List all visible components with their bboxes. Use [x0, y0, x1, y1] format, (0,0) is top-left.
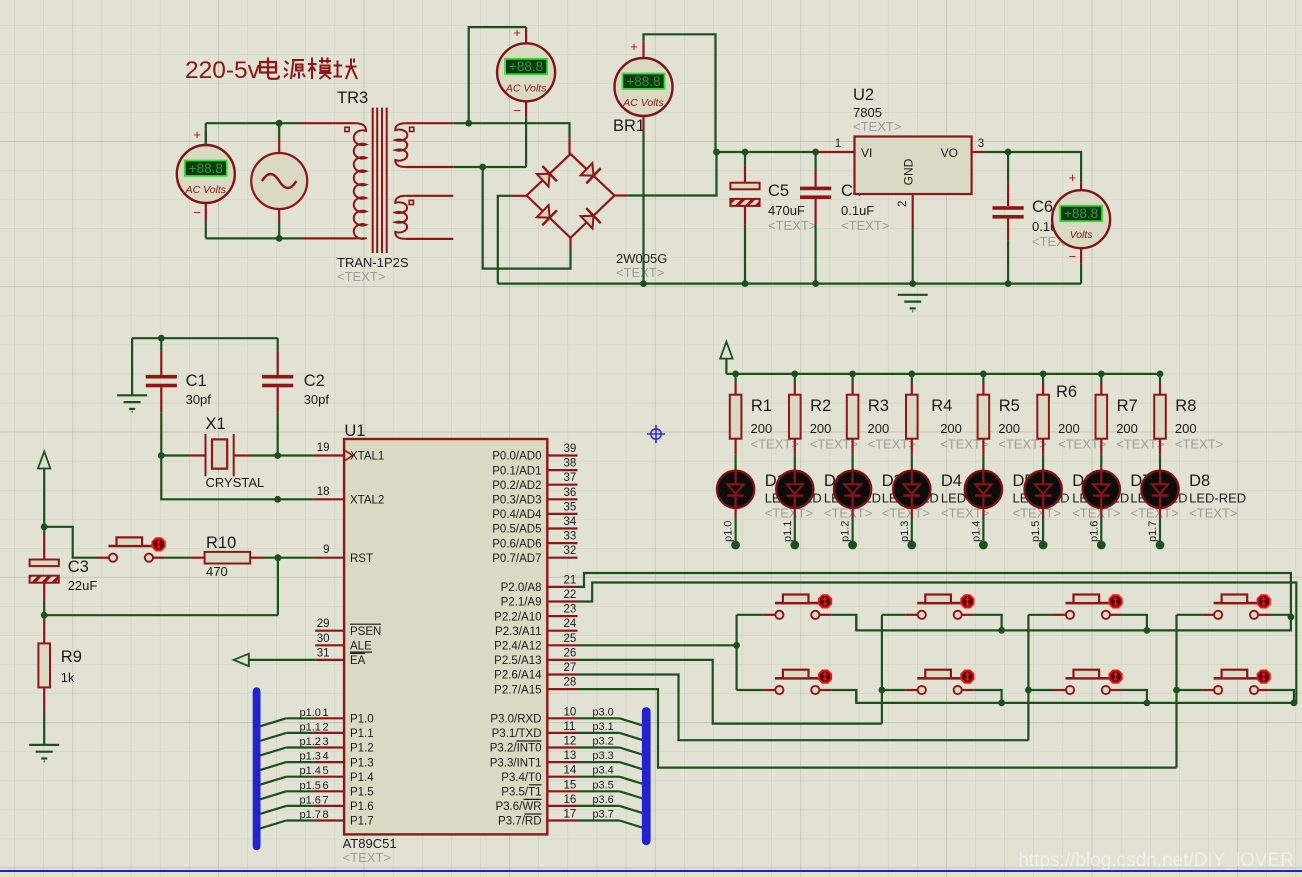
- P3 wires to bus: [578, 717, 620, 719]
- bridge BR1 diode D-TL: [537, 166, 557, 186]
- bus bar left (P1): [253, 687, 261, 850]
- wire P2.7 column4: [578, 689, 1177, 768]
- svg-text:R1: R1: [751, 397, 772, 415]
- svg-text:P0.0/AD0: P0.0/AD0: [492, 451, 541, 463]
- wire column4: [1175, 615, 1177, 768]
- svg-text:P0.3/AD3: P0.3/AD3: [492, 495, 541, 507]
- node junction VO: [1005, 149, 1012, 156]
- svg-text:P1.0: P1.0: [350, 714, 374, 726]
- svg-text:p1.5: p1.5: [300, 780, 321, 792]
- bus bar right (P3): [642, 707, 651, 845]
- svg-text:28: 28: [564, 677, 577, 689]
- svg-text:9: 9: [323, 544, 329, 556]
- svg-text:p1.6: p1.6: [1088, 521, 1100, 542]
- wire C3 top stub: [43, 527, 45, 533]
- svg-text:33: 33: [564, 531, 577, 543]
- wire row1 col2 left link: [882, 614, 906, 616]
- terminal dot D1: [731, 541, 740, 550]
- svg-text:11: 11: [564, 721, 576, 733]
- wire column1: [735, 615, 737, 690]
- resistor R10: [205, 552, 251, 564]
- svg-text:+88.8: +88.8: [1064, 206, 1098, 221]
- svg-text:4: 4: [323, 751, 329, 763]
- svg-text:p1.2: p1.2: [840, 521, 852, 542]
- svg-text:R3: R3: [868, 397, 889, 415]
- node junction regulator input: [713, 149, 720, 156]
- svg-text:+88.8: +88.8: [626, 74, 660, 89]
- svg-text:P3.1/TXD: P3.1/TXD: [492, 728, 542, 740]
- svg-text:P3.3/INT1: P3.3/INT1: [490, 757, 542, 769]
- svg-text:22uF: 22uF: [68, 578, 98, 593]
- svg-text:35: 35: [564, 501, 577, 513]
- wire D1 bottom: [734, 508, 736, 517]
- svg-text:26: 26: [564, 647, 577, 659]
- svg-text:P1.4: P1.4: [350, 772, 374, 784]
- svg-text:p1.4: p1.4: [300, 765, 321, 777]
- bridge rectifier BR1 outline: [527, 154, 615, 238]
- wire button to R10: [165, 557, 191, 559]
- svg-text:200: 200: [810, 421, 832, 436]
- wire C6 top stub: [1007, 152, 1009, 182]
- svg-text:36: 36: [564, 487, 577, 499]
- svg-text:RST: RST: [350, 553, 373, 565]
- wire C2 top stub: [277, 338, 279, 351]
- wire XTAL1 net: [161, 454, 190, 456]
- wire bridge DC- net: [511, 195, 527, 197]
- svg-text:P1.2: P1.2: [350, 743, 374, 755]
- svg-text:P3.0/RXD: P3.0/RXD: [490, 714, 541, 726]
- node junction AC source top: [276, 120, 283, 127]
- U1 P3 pins: [547, 717, 577, 719]
- LED D2: [776, 471, 813, 508]
- wire voltmeter top to top rail: [205, 123, 207, 145]
- microcontroller U1 body: [344, 439, 547, 834]
- wire bridge AC2 loop: [483, 167, 571, 269]
- svg-text:EA: EA: [350, 655, 366, 667]
- svg-text:1k: 1k: [61, 670, 75, 685]
- svg-text:12: 12: [564, 736, 577, 748]
- wire top rail to transformer: [206, 122, 302, 124]
- resistor R3: [847, 395, 859, 439]
- svg-text:200: 200: [751, 421, 773, 436]
- wire R4 to D4: [911, 439, 913, 455]
- wire voltmeter4 bottom: [1080, 248, 1082, 264]
- bridge BR1 diode D-BR: [581, 208, 601, 228]
- svg-text:2: 2: [323, 721, 329, 733]
- svg-text:15: 15: [564, 779, 577, 791]
- wire power to C3: [43, 469, 45, 527]
- node junction voltmeter3 ground: [640, 280, 647, 287]
- node junction C6 ground: [1005, 280, 1012, 287]
- svg-text:<TEXT>: <TEXT>: [343, 850, 391, 865]
- wire P2.6 column3: [578, 675, 1029, 741]
- svg-text:p1.7: p1.7: [1147, 521, 1159, 542]
- svg-text:P1.6: P1.6: [350, 801, 374, 813]
- transformer TR3 core: [373, 108, 387, 254]
- svg-text:U1: U1: [344, 422, 365, 440]
- wire to reset button: [44, 527, 98, 558]
- resistor R6: [1037, 395, 1049, 439]
- svg-text:p1.4: p1.4: [970, 521, 982, 542]
- node junction row2 link 3: [1144, 700, 1151, 707]
- svg-text:<TEXT>: <TEXT>: [841, 218, 889, 233]
- wire R6 top stub: [1042, 374, 1044, 383]
- ground symbol (R9): [29, 745, 59, 762]
- svg-text:30pf: 30pf: [304, 392, 330, 407]
- wire R3 top stub: [851, 374, 853, 383]
- wire row2 col4 right link: [1270, 690, 1294, 703]
- wire C2 bottom stub: [277, 387, 279, 412]
- wire voltmeter2 bottom stub: [525, 102, 527, 118]
- svg-text:200: 200: [868, 421, 890, 436]
- wire R10 to RST: [250, 557, 264, 559]
- wire C3 bottom stub: [43, 583, 45, 601]
- wire D2 bottom: [794, 508, 796, 517]
- svg-text:P2.5/A13: P2.5/A13: [494, 655, 541, 667]
- capacitor C5 (electrolytic): [730, 183, 759, 206]
- svg-text:18: 18: [317, 486, 330, 498]
- svg-text:AT89C51: AT89C51: [343, 836, 397, 851]
- svg-text:0.1uF: 0.1uF: [841, 203, 874, 218]
- ground symbol (crystal): [117, 395, 147, 412]
- svg-text:AC Volts: AC Volts: [185, 184, 227, 196]
- svg-text:3: 3: [978, 138, 984, 150]
- wire R4 top stub: [911, 374, 913, 383]
- svg-text:D8: D8: [1189, 472, 1210, 490]
- wire row1 col2 right link: [974, 615, 1002, 631]
- svg-text:AC Volts: AC Volts: [622, 97, 664, 109]
- svg-text:C3: C3: [68, 558, 89, 576]
- svg-text:P0.1/AD1: P0.1/AD1: [492, 465, 541, 477]
- svg-text:AC Volts: AC Volts: [505, 82, 547, 94]
- U2 pin3 VO: [972, 151, 986, 153]
- resistor R7: [1096, 395, 1108, 439]
- svg-text:p1.1: p1.1: [782, 521, 794, 542]
- wire P2.4 column1: [578, 644, 737, 646]
- svg-text:C5: C5: [768, 182, 789, 200]
- svg-text:1: 1: [323, 707, 329, 719]
- U1 XTAL1 input arrow: [345, 451, 352, 461]
- node junction row1 link 3: [1144, 627, 1151, 634]
- wire row1 col3 left link: [1028, 614, 1054, 616]
- bridge BR1 diode D-BL: [537, 205, 557, 225]
- wire row2 col1 right link: [831, 690, 856, 703]
- capacitor C1 (ceramic): [146, 375, 177, 387]
- svg-text:38: 38: [564, 458, 577, 470]
- pushbutton matrix row1 col1: [763, 595, 831, 619]
- svg-text:220-5v: 220-5v: [185, 57, 261, 84]
- voltmeter AC Volts (input): [177, 145, 235, 203]
- svg-text:p1.3: p1.3: [300, 751, 321, 763]
- wire AC source bottom stub: [278, 209, 280, 224]
- svg-text:7805: 7805: [853, 105, 882, 120]
- svg-text:VI: VI: [861, 146, 872, 160]
- bridge BR1 diode D-TR: [581, 163, 601, 183]
- wire column2: [881, 615, 883, 724]
- node junction pin22 row2: [1291, 700, 1298, 707]
- svg-text:1: 1: [835, 138, 841, 150]
- svg-text:P3.2/INT0: P3.2/INT0: [490, 743, 542, 755]
- transformer TR3 secondary B polarity dot: [409, 200, 413, 204]
- node junction row1 link 2: [998, 627, 1005, 634]
- node junction secondary A top: [465, 120, 472, 127]
- wire row2 col3 left link: [1028, 689, 1054, 691]
- terminal dot D7: [1097, 541, 1106, 550]
- terminal dot D8: [1156, 541, 1165, 550]
- wire V+ rail to U2: [717, 151, 819, 153]
- svg-text:C6: C6: [1032, 198, 1053, 216]
- svg-text:R6: R6: [1056, 383, 1077, 401]
- svg-text:C2: C2: [304, 372, 325, 390]
- svg-text:P2.2/A10: P2.2/A10: [494, 611, 541, 623]
- svg-text:P0.6/AD6: P0.6/AD6: [492, 538, 541, 550]
- wire R1 to D1: [734, 439, 736, 455]
- wire D7 bottom: [1100, 508, 1102, 517]
- wire R3 to D3: [851, 439, 853, 455]
- svg-text:23: 23: [564, 604, 577, 616]
- svg-text:p3.4: p3.4: [592, 765, 613, 777]
- pushbutton matrix row1 col3: [1054, 595, 1122, 619]
- svg-text:PSEN: PSEN: [350, 626, 381, 638]
- wire row2 col4 left link: [1177, 689, 1203, 691]
- terminal dot D3: [848, 541, 857, 550]
- svg-text:P2.4/A12: P2.4/A12: [494, 641, 541, 653]
- wire P2.5 column2: [578, 660, 882, 724]
- svg-text:+: +: [630, 39, 638, 54]
- svg-text:VO: VO: [941, 146, 958, 160]
- wire row1 col4 left link: [1177, 614, 1203, 616]
- svg-text:200: 200: [940, 421, 962, 436]
- LED D5: [965, 471, 1002, 508]
- transformer TR3 secondary winding A: [395, 123, 407, 167]
- svg-text:25: 25: [564, 633, 577, 645]
- wire D6 bottom: [1042, 508, 1044, 517]
- svg-text:37: 37: [564, 472, 577, 484]
- svg-text:30pf: 30pf: [186, 392, 212, 407]
- svg-text:+88.8: +88.8: [189, 161, 223, 176]
- svg-text:3: 3: [323, 736, 329, 748]
- wire voltmeter3 bottom: [642, 116, 644, 132]
- wire R9 bottom stub: [43, 687, 45, 714]
- ground symbol (regulator): [898, 295, 928, 312]
- svg-text:P1.3: P1.3: [350, 757, 374, 769]
- node junction pin21 row1: [1288, 614, 1295, 621]
- svg-text:13: 13: [564, 750, 577, 762]
- terminal dot D5: [979, 541, 988, 550]
- svg-text:P1.5: P1.5: [350, 787, 374, 799]
- wire D5 bottom: [982, 508, 984, 517]
- U1 P1.0-P1.7 pins and wires: [314, 717, 344, 719]
- wire voltmeter3 top loop: [642, 41, 644, 57]
- svg-text:https://blog.csdn.net/DIY_lOVE: https://blog.csdn.net/DIY_lOVER: [1018, 850, 1294, 871]
- regulator U2 7805 body: [855, 137, 972, 195]
- pushbutton matrix row1 col4: [1202, 595, 1270, 619]
- node junction XTAL1 right: [274, 452, 281, 459]
- wire C5 bottom stub: [744, 206, 746, 225]
- wire row2 col3 right link: [1122, 690, 1147, 703]
- resistor R1: [730, 395, 742, 439]
- capacitor C3 (electrolytic): [30, 560, 59, 583]
- wire VO to voltmeter4: [1008, 152, 1081, 182]
- svg-text:R4: R4: [931, 397, 952, 415]
- U1 P0 pins: [547, 454, 577, 456]
- svg-text:BR1: BR1: [613, 117, 645, 135]
- svg-text:P0.2/AD2: P0.2/AD2: [492, 480, 541, 492]
- wire secondary A top net: [406, 122, 454, 124]
- wire bridge DC+ net: [614, 194, 627, 196]
- wire voltmeter bottom stub: [205, 203, 207, 221]
- pushbutton matrix row2 col2: [906, 670, 974, 694]
- wire AC source top stub: [278, 138, 280, 153]
- svg-text:P2.7/A15: P2.7/A15: [494, 684, 541, 696]
- svg-text:C1: C1: [186, 372, 207, 390]
- LED D3: [834, 471, 871, 508]
- capacitor C2 (ceramic): [262, 375, 293, 387]
- svg-text:p1.3: p1.3: [899, 521, 911, 542]
- svg-text:P3.6/WR: P3.6/WR: [495, 801, 541, 813]
- wire LED supply rail: [726, 373, 1160, 375]
- svg-text:p3.5: p3.5: [592, 779, 613, 791]
- svg-text:p1.5: p1.5: [1030, 521, 1042, 542]
- wire D4 bottom: [911, 508, 913, 517]
- svg-text:470: 470: [206, 564, 228, 579]
- wire R8 top stub: [1159, 374, 1161, 383]
- wire C1 top stub: [160, 338, 162, 351]
- svg-text:2: 2: [897, 201, 909, 207]
- svg-text:200: 200: [998, 421, 1020, 436]
- wire column3: [1027, 615, 1029, 740]
- wire R5 to D5: [982, 439, 984, 455]
- svg-text:TR3: TR3: [337, 89, 368, 107]
- node junction XTAL1 left: [158, 452, 165, 459]
- wire R7 top stub: [1100, 374, 1102, 383]
- pushbutton matrix row2 col1: [763, 670, 831, 694]
- wire R1 top stub: [734, 374, 736, 383]
- svg-text:R10: R10: [206, 534, 236, 552]
- wire row2 col2 right link: [974, 690, 1002, 703]
- resistor R5: [978, 395, 990, 439]
- svg-text:31: 31: [317, 647, 330, 659]
- voltmeter AC Volts (rectifier): [615, 58, 673, 116]
- wire C4 top stub: [814, 152, 816, 172]
- svg-text:U2: U2: [853, 86, 874, 104]
- wire D3 bottom: [851, 508, 853, 517]
- svg-text:200: 200: [1175, 421, 1197, 436]
- svg-text:200: 200: [1116, 421, 1138, 436]
- terminal dot D2: [790, 541, 799, 550]
- node junction C5 top: [742, 149, 749, 156]
- svg-text:30: 30: [317, 633, 330, 645]
- transformer TR3 secondary winding B: [395, 196, 407, 239]
- svg-text:32: 32: [564, 545, 577, 557]
- svg-text:27: 27: [564, 662, 577, 674]
- svg-text:5: 5: [323, 765, 329, 777]
- wire voltmeter2 top loop: [525, 27, 527, 43]
- svg-text:P3.5/T1: P3.5/T1: [501, 787, 541, 799]
- svg-text:−: −: [1069, 249, 1077, 264]
- wire ground rail: [498, 283, 1081, 285]
- svg-text:19: 19: [317, 442, 330, 454]
- svg-text:p3.2: p3.2: [592, 736, 613, 748]
- svg-text:R9: R9: [61, 648, 82, 666]
- svg-text:CRYSTAL: CRYSTAL: [206, 475, 265, 490]
- capacitor C6 (ceramic): [993, 206, 1024, 218]
- transformer TR3 primary polarity dot: [345, 127, 349, 131]
- svg-text:P2.0/A8: P2.0/A8: [501, 582, 542, 594]
- wire R6 to D6: [1042, 439, 1044, 455]
- LED D1: [717, 471, 754, 508]
- node junction C4 ground: [812, 280, 819, 287]
- wire bottom rail: [206, 237, 302, 239]
- svg-text:X1: X1: [206, 415, 226, 433]
- wire row1 col3 right link: [1122, 615, 1147, 631]
- U2 pin2 GND wire: [912, 194, 914, 229]
- svg-text:−: −: [193, 205, 201, 220]
- svg-text:R5: R5: [999, 397, 1020, 415]
- svg-text:P2.1/A9: P2.1/A9: [501, 597, 542, 609]
- wire C6 bottom stub: [1007, 219, 1009, 241]
- wire voltmeter top pin stub: [205, 132, 207, 146]
- svg-text:p1.1: p1.1: [300, 721, 321, 733]
- svg-text:<TEXT>: <TEXT>: [853, 119, 901, 134]
- svg-text:p1.6: p1.6: [300, 794, 321, 806]
- transformer TR3 primary winding: [354, 123, 366, 239]
- svg-text:17: 17: [564, 809, 577, 821]
- voltmeter AC Volts (secondary): [497, 43, 555, 101]
- svg-text:+: +: [193, 127, 201, 142]
- svg-text:<TEXT>: <TEXT>: [1189, 506, 1237, 521]
- svg-text:p1.2: p1.2: [300, 736, 321, 748]
- svg-text:ALE: ALE: [350, 641, 372, 653]
- node junction C1 top: [158, 335, 165, 342]
- svg-text:D4: D4: [941, 472, 962, 490]
- svg-text:LED-RED: LED-RED: [1189, 491, 1246, 506]
- U2 pin1 VI: [818, 151, 854, 153]
- wire secondary B bottom stub: [406, 238, 454, 240]
- wire C5 top stub: [744, 152, 746, 166]
- placement crosshair marker: [647, 425, 665, 443]
- wire reset net: [44, 614, 278, 616]
- EA arrow terminal: [234, 654, 249, 666]
- svg-text:<TEXT>: <TEXT>: [616, 265, 664, 280]
- wire C1-C2 top rail: [132, 337, 278, 339]
- svg-text:p1.7: p1.7: [300, 809, 321, 821]
- wire R9 top stub: [43, 615, 45, 620]
- node junction AC source bottom: [276, 235, 283, 242]
- node junction column4 row2: [1173, 687, 1180, 694]
- svg-text:p3.1: p3.1: [592, 721, 613, 733]
- svg-text:p3.6: p3.6: [592, 794, 613, 806]
- svg-text:P1.1: P1.1: [350, 728, 374, 740]
- wire C1 bottom stub: [160, 387, 162, 412]
- node junctions LED rail: [732, 371, 739, 378]
- wire XTAL2 net: [161, 456, 313, 500]
- node junction column3 row2: [1025, 687, 1032, 694]
- svg-text:8: 8: [323, 809, 329, 821]
- svg-text:GND: GND: [902, 158, 916, 185]
- node junction secondary A bottom: [479, 164, 486, 171]
- svg-text:p3.7: p3.7: [592, 809, 613, 821]
- svg-text:29: 29: [317, 618, 330, 630]
- wire R8 to D8: [1159, 439, 1161, 455]
- wire D8 bottom: [1159, 508, 1161, 517]
- svg-text:XTAL2: XTAL2: [350, 495, 384, 507]
- resistor R2: [789, 395, 801, 439]
- svg-text:P0.4/AD4: P0.4/AD4: [492, 509, 542, 521]
- node junction row2 link 2: [998, 700, 1005, 707]
- svg-text:p1.0: p1.0: [723, 521, 735, 542]
- svg-text:P3.4/T0: P3.4/T0: [501, 772, 541, 784]
